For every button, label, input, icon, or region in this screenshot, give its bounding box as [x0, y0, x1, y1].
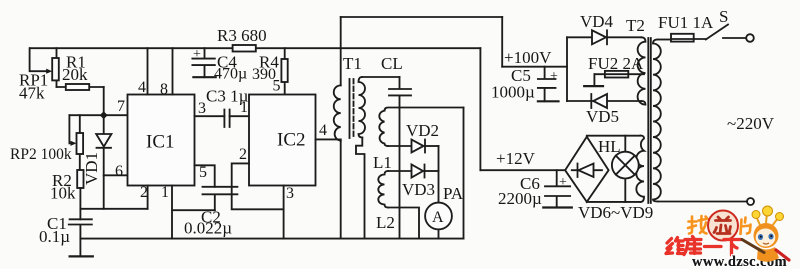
transformer T2 primary upper coil — [638, 37, 646, 104]
wire IC1 pin8 stem — [172, 48, 174, 94]
watermark char zhao — [688, 216, 708, 234]
svg-text:4: 4 — [319, 122, 327, 139]
svg-text:IC1: IC1 — [146, 132, 175, 153]
wire C2 bottom to pin1 stem — [172, 209, 215, 211]
wire T1 primary top stem — [340, 17, 342, 85]
svg-text:RP2 100k: RP2 100k — [10, 146, 72, 163]
svg-text:IC2: IC2 — [277, 130, 306, 151]
svg-text:1: 1 — [240, 99, 248, 116]
svg-text:+: + — [559, 175, 567, 190]
wire IC2 pin4 to T1 — [316, 138, 341, 140]
svg-text:10k: 10k — [50, 184, 76, 203]
svg-text:CL: CL — [381, 54, 403, 73]
wire R1 down to node 7 — [103, 87, 105, 115]
wire L2 bottom to bottom rail — [388, 208, 419, 239]
ground stub of FU2 — [593, 74, 595, 86]
wire +12V rail — [480, 169, 565, 171]
wire IC1 pin4 stem — [147, 48, 149, 94]
watermark char pian — [741, 218, 751, 235]
svg-text:VD3: VD3 — [402, 180, 435, 199]
wire L1 to VD2 — [388, 145, 412, 147]
watermark text weiku yixia — [666, 237, 741, 256]
op-amp U2 : IC2 box — [249, 95, 316, 186]
capacitor CL — [389, 77, 411, 108]
svg-text:5: 5 — [199, 164, 207, 181]
wire VD4 box left edge — [566, 37, 568, 101]
resistor R3 — [233, 45, 256, 52]
potentiometer RP2 — [79, 115, 81, 170]
svg-text:L1: L1 — [373, 153, 392, 172]
ground — [538, 100, 559, 102]
wire IC1 pin3 to C3 — [195, 115, 225, 117]
ground — [193, 76, 215, 78]
svg-text:VD4: VD4 — [580, 12, 614, 31]
svg-text:+: + — [193, 47, 201, 62]
svg-text:A: A — [432, 209, 444, 226]
wire T1 primary bottom to bottom rail — [340, 139, 342, 238]
svg-text:8: 8 — [160, 81, 168, 98]
lamp HL — [624, 136, 626, 202]
wire IC1 pin5 to C2 — [195, 165, 215, 187]
svg-text:3: 3 — [286, 185, 294, 202]
transformer T1 primary coil — [334, 85, 341, 140]
watermark mascot — [742, 206, 789, 262]
svg-text:VD6~VD9: VD6~VD9 — [578, 203, 653, 222]
capacitor C4 — [192, 48, 214, 77]
svg-text:R3 680: R3 680 — [217, 26, 267, 45]
svg-text:FU2 2A: FU2 2A — [588, 54, 644, 73]
svg-text:20k: 20k — [62, 65, 88, 84]
wire IC1 pin1 stem down to bottom rail — [171, 186, 173, 239]
wire node7 horizontal to IC1 pin7 — [69, 114, 127, 116]
inductor L2 — [378, 171, 388, 208]
svg-text:1000µ: 1000µ — [491, 83, 535, 102]
svg-text:4: 4 — [138, 79, 146, 96]
node A junction dot — [100, 111, 108, 119]
svg-text:T1: T1 — [343, 54, 362, 73]
wire VD2/VD3 output down to meter — [438, 146, 440, 203]
capacitor C2 — [203, 187, 238, 210]
diode VD1 — [103, 115, 105, 134]
wire top rail right corner down — [501, 17, 503, 67]
watermark dzsc — [666, 206, 789, 269]
wire VD4 top edge — [567, 36, 642, 38]
svg-text:1: 1 — [161, 184, 169, 201]
svg-text:PA: PA — [443, 184, 464, 203]
wire left corner down to RP1 wiper — [30, 48, 48, 71]
fuse FU2 — [594, 73, 644, 75]
resistor R2 — [77, 170, 83, 188]
svg-text:+12V: +12V — [496, 149, 536, 168]
svg-text:L2: L2 — [376, 213, 395, 232]
svg-text:~220V: ~220V — [727, 114, 775, 133]
resistor R1 — [57, 86, 104, 88]
svg-text:2: 2 — [239, 146, 247, 163]
svg-text:47k: 47k — [19, 84, 45, 103]
svg-text:T2: T2 — [626, 16, 645, 35]
svg-text:+: + — [550, 69, 558, 84]
wire +100V rail — [502, 66, 567, 68]
diode VD2 — [412, 140, 424, 153]
transformer T2 core — [648, 38, 651, 203]
op-amp U1 : IC1 box — [128, 95, 195, 186]
wire IC1 pin2 stem — [147, 186, 149, 209]
svg-text:VD2: VD2 — [406, 121, 439, 140]
wire VD5 bottom edge — [567, 100, 642, 102]
diode inside bridge — [572, 169, 602, 171]
wire IC2 pin2 — [232, 163, 284, 209]
capacitor C5 — [538, 67, 556, 102]
watermark seal ring — [708, 211, 738, 241]
svg-text:470µ: 470µ — [214, 66, 247, 83]
svg-text:+100V: +100V — [504, 48, 552, 67]
switch S — [706, 25, 728, 40]
wire main rail right corner down — [479, 48, 481, 170]
svg-text:VD1: VD1 — [82, 152, 101, 185]
svg-text:3: 3 — [198, 100, 206, 117]
capacitor C3 — [224, 110, 229, 128]
resistor R4 — [284, 48, 286, 94]
wire detector box top edge — [385, 108, 464, 111]
meter PA — [425, 203, 452, 230]
svg-text:0.022µ: 0.022µ — [184, 219, 232, 238]
wire T1 secondary top to CL — [362, 76, 400, 78]
ground — [543, 206, 572, 208]
svg-text:0.1µ: 0.1µ — [39, 227, 70, 246]
transformer T2 primary lower coil — [636, 136, 644, 202]
wire T1 secondary bottom jog to bottom rail — [356, 138, 365, 239]
wire T2 secondary bottom to terminal — [658, 201, 747, 203]
diode VD3 — [412, 165, 424, 178]
wire C3 to IC2 pin1 — [230, 115, 249, 117]
svg-text:7: 7 — [117, 98, 125, 115]
wire CL line down to bottom rail — [399, 108, 401, 239]
svg-text:2: 2 — [140, 184, 148, 201]
wire R2/C1 to IC1 pin2 — [80, 208, 147, 210]
svg-text:2200µ: 2200µ — [498, 189, 542, 208]
svg-text:FU1 1A: FU1 1A — [658, 13, 714, 32]
potentiometer RP1 — [56, 48, 58, 87]
svg-text:HL: HL — [598, 137, 621, 156]
diode VD4 — [592, 30, 606, 44]
svg-text:S: S — [719, 7, 728, 26]
capacitor C6 — [545, 170, 570, 207]
wire top loop rail — [341, 16, 503, 18]
wire HL box top edge — [587, 135, 641, 137]
svg-text:5: 5 — [273, 78, 281, 95]
wire IC2 pin3 stem down to bottom rail — [283, 186, 285, 239]
watermark char xin inside seal — [714, 217, 731, 234]
inductor L1 — [379, 111, 388, 146]
bridge rectifier VD6~VD9 diamond — [565, 137, 609, 202]
transformer T1 core — [349, 79, 351, 138]
wire detector box right edge — [463, 108, 465, 239]
ground — [70, 255, 93, 257]
wire HL box bottom edge — [587, 201, 641, 203]
svg-text:VD5: VD5 — [586, 107, 619, 126]
wire L2 top to VD3 — [388, 170, 412, 172]
capacitor C1 — [69, 219, 92, 256]
svg-text:6: 6 — [115, 163, 123, 180]
fuse FU1 — [658, 39, 672, 41]
diode VD5 — [593, 94, 607, 108]
wire IC1 pin6 — [104, 174, 128, 176]
wire bottom rail — [80, 238, 463, 240]
transformer T2 secondary coil — [653, 40, 661, 202]
transformer T1 secondary coil — [359, 77, 366, 138]
wire main top rail — [30, 47, 480, 49]
